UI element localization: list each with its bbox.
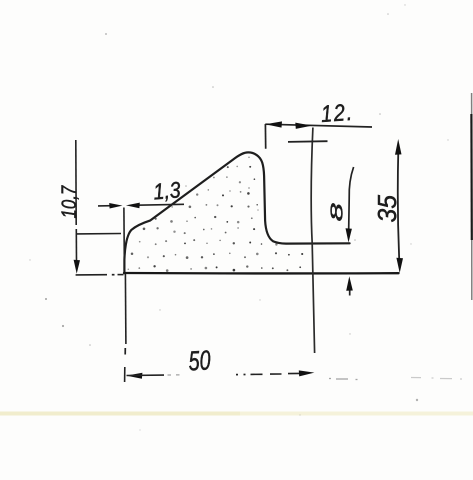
dim 35 top arrow (up): [395, 139, 402, 155]
scan artifact right edge dark line: [471, 93, 473, 300]
scattered scan specks: [29, 4, 448, 430]
part outline: left edge, slant, rounded top, right wall, fillet, step ledge: [124, 152, 349, 273]
svg-text:1,3: 1,3: [152, 178, 181, 205]
dim 35 bottom arrow (down): [396, 258, 403, 273]
dim 10,7: vertical dimension line: [75, 140, 77, 225]
dim 50 left arrow: [126, 373, 142, 379]
dim 35: dimension line: [398, 151, 399, 261]
dim 50 right arrow: [288, 372, 300, 374]
dim 12 right arrow: [295, 123, 312, 129]
faint marks after left tail: [168, 374, 180, 376]
dim 50 dash-dot segments: [236, 374, 238, 376]
dim 12 left extension line: [264, 124, 266, 149]
right extension line x=313 from dim12 down to 50 dim: [311, 128, 315, 354]
dim 12: dimension line: [265, 124, 372, 127]
part bottom line: [124, 272, 399, 275]
stipple fill dots of section: [128, 157, 304, 272]
scan artifact cream band: [0, 412, 473, 416]
dim 12 left arrow: [265, 121, 282, 127]
dim 1,3: right segment + left-pointing arrow: [137, 203, 184, 206]
svg-text:12.: 12.: [320, 98, 355, 127]
dim 8: upper line with down arrow at ledge: [349, 167, 354, 229]
short tick line under 12: [288, 140, 328, 143]
svg-text:50: 50: [188, 345, 212, 377]
dim 1,3 extension line down to corner: [123, 208, 125, 261]
dim 10,7 top extension line: [76, 233, 121, 235]
dim 8: lower up arrow below bottom line: [349, 284, 351, 296]
faint dash-dot continuation right of 50 arrow: [329, 379, 358, 380]
dim 10,7 down arrow: [74, 260, 80, 274]
svg-text:8: 8: [327, 203, 347, 222]
dim 1,3: left segment + right-pointing arrow: [98, 205, 112, 207]
svg-text:10,7: 10,7: [58, 185, 81, 219]
dim 10,7 bottom dash-dot extension: [76, 274, 107, 276]
svg-text:35: 35: [373, 194, 402, 222]
dim 50: left extension line below corner: [124, 274, 127, 344]
